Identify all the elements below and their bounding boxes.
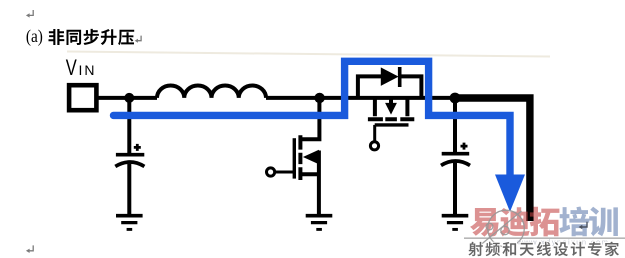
svg-text:V: V <box>66 56 77 81</box>
svg-text:(a): (a) <box>26 26 43 46</box>
svg-text:IN: IN <box>79 62 97 78</box>
